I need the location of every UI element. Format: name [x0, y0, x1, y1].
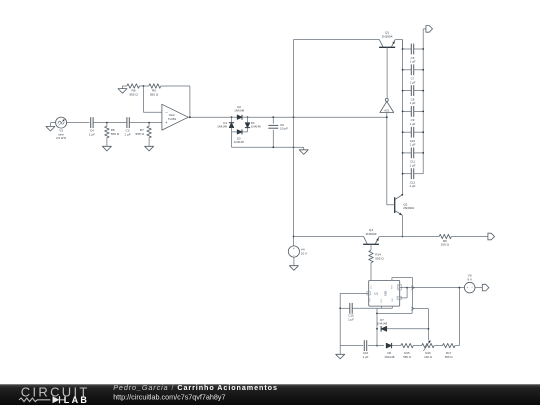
ground bottom [336, 354, 345, 359]
svg-text:1N4148: 1N4148 [251, 125, 261, 129]
capacitor C5 [402, 44, 424, 64]
svg-text:+: + [293, 247, 295, 251]
svg-text:1N4148: 1N4148 [384, 355, 395, 359]
node [293, 236, 295, 238]
capacitor C10 [402, 127, 424, 147]
node [428, 328, 430, 330]
node [459, 287, 461, 289]
svg-text:100 Ω: 100 Ω [441, 243, 450, 247]
svg-text:1 µF: 1 µF [348, 318, 354, 322]
wire [143, 86, 162, 112]
capacitor C16 [363, 340, 369, 359]
svg-text:TRG: TRG [369, 297, 371, 302]
resistor R7 [136, 123, 152, 147]
wire [376, 308, 378, 345]
source V4 [288, 246, 308, 257]
resistor R9 [439, 234, 451, 246]
wire [379, 236, 439, 238]
wire [340, 307, 350, 309]
wire main rail [293, 40, 295, 247]
capacitor C11 [402, 148, 424, 168]
IC U1 555 [367, 280, 401, 306]
ground under R7 [145, 146, 154, 151]
svg-text:2.6 kHz: 2.6 kHz [56, 136, 67, 140]
source V5 [464, 273, 475, 293]
svg-text:555 Ω: 555 Ω [445, 355, 454, 359]
footer url [113, 393, 225, 402]
capacitor C3 [124, 117, 130, 136]
svg-text:1 µF: 1 µF [124, 132, 130, 136]
svg-text:555 Ω: 555 Ω [375, 257, 384, 261]
wire Q1 base [386, 47, 388, 98]
wire OUT [400, 287, 407, 289]
capacitor C6 [268, 117, 288, 147]
wire ladder left rail [402, 40, 404, 195]
wire op-amp output [188, 116, 231, 118]
svg-text:AG1: AG1 [384, 109, 390, 113]
wire THR pin [391, 306, 393, 308]
wire [407, 287, 464, 289]
svg-text:2N3904: 2N3904 [382, 34, 393, 38]
svg-text:U1: U1 [374, 291, 378, 295]
node [376, 313, 378, 347]
wire [451, 236, 488, 238]
svg-text:+: + [466, 286, 468, 290]
transistor Q1 [379, 30, 403, 47]
wire bridge to bottom rail [231, 132, 233, 147]
output flag top [423, 26, 432, 33]
wire [67, 122, 90, 124]
svg-text:1 µF: 1 µF [89, 132, 95, 136]
svg-text:1 µF: 1 µF [410, 101, 416, 105]
wire [294, 236, 364, 238]
node [386, 116, 388, 118]
svg-text:−: − [471, 286, 473, 290]
logo LAB [64, 395, 89, 405]
node [272, 146, 294, 148]
svg-text:1N4148: 1N4148 [377, 322, 388, 326]
svg-text:THR: THR [392, 298, 394, 303]
svg-text:1 µF: 1 µF [363, 355, 369, 359]
diode D3 [232, 129, 248, 144]
svg-text:1 µF: 1 µF [410, 80, 416, 84]
op-amp OA2 [162, 104, 188, 130]
svg-text:2N3904: 2N3904 [366, 232, 377, 236]
resistor R6 [149, 84, 161, 97]
wire [392, 345, 401, 347]
wire [455, 288, 459, 346]
svg-text:1N4148: 1N4148 [234, 140, 244, 144]
wire Q2 emitter [401, 215, 403, 236]
svg-text:1 µF: 1 µF [410, 60, 416, 64]
capacitor C4 [89, 117, 95, 136]
svg-text:555: 555 [384, 290, 388, 295]
node [189, 116, 191, 118]
footer title [113, 383, 278, 392]
ground at R8 [118, 86, 127, 93]
antenna AG1 [380, 98, 394, 112]
wire [93, 122, 127, 124]
svg-text:LAB: LAB [64, 395, 89, 405]
svg-text:−: − [293, 253, 295, 257]
capacitor C8 [402, 85, 424, 105]
svg-text:Pedro_Garcia / Carrinho Aciona: Pedro_Garcia / Carrinho Acionamentos [113, 383, 278, 392]
capacitor C12 [402, 168, 424, 188]
node [406, 287, 408, 289]
resistor R15 [401, 343, 414, 359]
wire Q1 emitter [402, 40, 404, 49]
wire [370, 263, 372, 281]
svg-text:TL081: TL081 [168, 117, 177, 121]
node arrow [411, 307, 414, 310]
diode D4 [245, 117, 261, 132]
wire [352, 307, 392, 309]
wire below antenna [386, 113, 388, 205]
svg-text:2N3904: 2N3904 [403, 206, 414, 210]
svg-text:1 µF: 1 µF [410, 143, 416, 147]
wire top to Q1 [294, 39, 380, 41]
wire ladder right rail [422, 29, 424, 174]
footer bar [0, 384, 540, 405]
output flag right [488, 233, 495, 240]
ground at V3 [46, 123, 56, 131]
node [339, 307, 341, 309]
node [402, 236, 404, 238]
logo CIRCUIT [21, 384, 90, 399]
capacitor C9 [402, 106, 424, 126]
svg-text:VCC: VCC [371, 284, 373, 289]
ground under R5 [102, 146, 111, 151]
wire top rail [248, 116, 387, 118]
wire [340, 345, 363, 347]
svg-text:1N4148: 1N4148 [217, 125, 227, 129]
svg-text:1 µF: 1 µF [410, 122, 416, 126]
svg-text:10 µF: 10 µF [280, 127, 288, 131]
wire GND pin [380, 306, 382, 308]
svg-text:555 Ω: 555 Ω [136, 132, 145, 136]
svg-text:555 Ω: 555 Ω [111, 132, 120, 136]
wire [129, 122, 162, 124]
capacitor C7 [402, 64, 424, 84]
output flag V5 [482, 284, 489, 291]
wire DIS loop [400, 288, 407, 298]
wire [413, 309, 429, 341]
svg-text:1 µF: 1 µF [410, 163, 416, 167]
resistor R8 [127, 84, 140, 97]
wire [140, 85, 149, 87]
svg-text:−: − [165, 110, 168, 115]
wire [377, 309, 412, 314]
wire TRG [340, 293, 369, 345]
wire Q3 base [370, 244, 372, 250]
svg-text:10 V: 10 V [301, 251, 308, 255]
wire RST loop [392, 278, 413, 309]
svg-text:555 Ω: 555 Ω [129, 92, 138, 96]
node [272, 116, 294, 118]
diode D1 [217, 117, 234, 132]
diode D2 [232, 105, 248, 120]
wire [475, 287, 482, 289]
wire [413, 345, 421, 347]
wire [368, 345, 384, 347]
ground under V4 [289, 257, 298, 270]
node [143, 85, 145, 87]
wire [339, 345, 341, 354]
node arrow [411, 286, 414, 290]
svg-text:100 Ω: 100 Ω [424, 355, 433, 359]
node [231, 116, 249, 118]
node [148, 122, 150, 124]
source V3 sine [56, 117, 67, 140]
resistor R5 [105, 123, 120, 147]
transistor Q2 [387, 195, 415, 216]
svg-text:http://circuitlab.com/c7s7qvf7: http://circuitlab.com/c7s7qvf7ah8y7 [113, 393, 225, 402]
node [401, 194, 403, 196]
svg-text:555 Ω: 555 Ω [150, 92, 159, 96]
resistor R14 [369, 250, 385, 262]
svg-text:GND: GND [381, 298, 383, 303]
resistor R17 [443, 343, 456, 359]
diode D6 [384, 343, 395, 359]
ground at bottom rail [294, 147, 309, 154]
wire [161, 86, 190, 117]
wire [434, 345, 442, 347]
wire bottom rail [232, 146, 294, 148]
svg-text:555 Ω: 555 Ω [403, 355, 412, 359]
capacitor C15 [348, 303, 354, 322]
svg-text:1 µF: 1 µF [410, 184, 416, 188]
node [106, 122, 108, 124]
svg-text:1N4148: 1N4148 [234, 108, 244, 112]
logo resistor-diode [19, 396, 65, 403]
potentiometer R16 [422, 340, 435, 359]
transistor Q3 [363, 228, 379, 244]
diode D7 [377, 318, 428, 332]
